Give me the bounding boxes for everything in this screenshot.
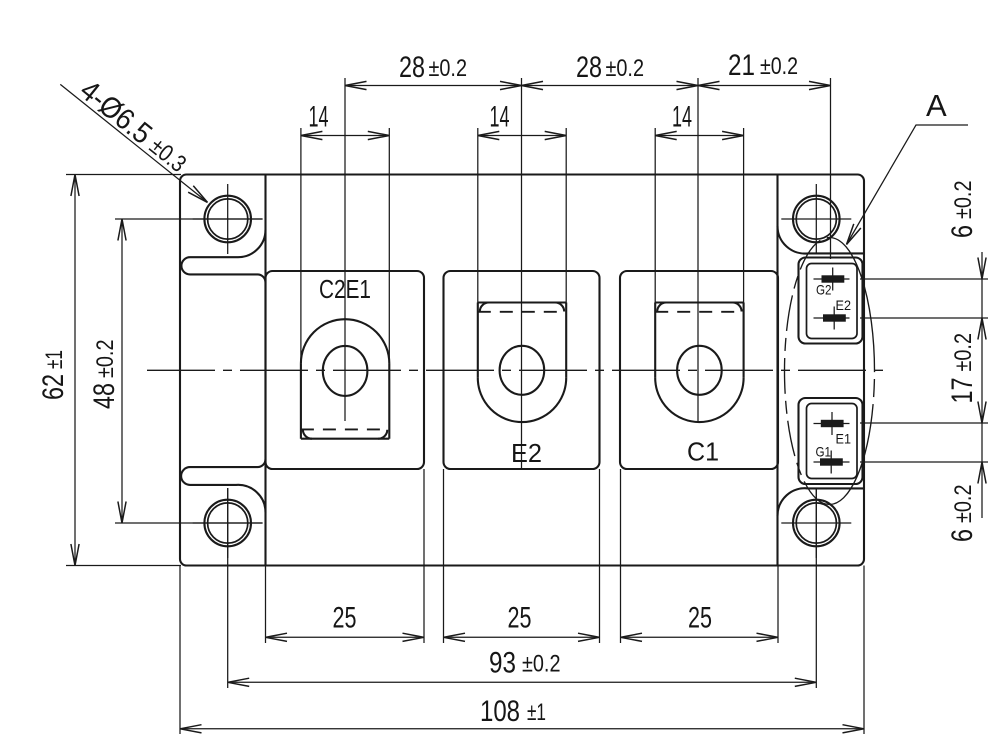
gate connector block bottom (E1/G1) outer bbox=[799, 398, 863, 484]
bottom-left slot bbox=[181, 459, 265, 485]
gate pin G1 bbox=[820, 458, 843, 465]
dim text 48+-0.2 (rotated) bbox=[88, 340, 121, 410]
extension lines 93-dim bbox=[228, 488, 817, 688]
leader 4-dia6.5 hole callout bbox=[60, 84, 207, 202]
gate pin G2 bbox=[822, 275, 845, 282]
C1 washer hidden edge (dashed) bbox=[655, 311, 743, 313]
hole bottom-left crosshair bbox=[193, 488, 263, 558]
right internal edge line bbox=[776, 175, 778, 566]
svg-text:±0.2: ±0.2 bbox=[522, 651, 561, 678]
pin E1 centerline cross bbox=[814, 412, 850, 435]
C2E1 terminal hole bbox=[323, 346, 368, 396]
extension lines 48-dim bbox=[115, 219, 262, 523]
dim line 48 bbox=[121, 219, 123, 523]
extension lines 25-dims bbox=[266, 469, 779, 643]
hole top-left crosshair bbox=[193, 184, 263, 254]
C2E1 washer hooks bbox=[303, 430, 312, 439]
extension line E2 center bbox=[521, 78, 523, 469]
svg-text:28: 28 bbox=[399, 51, 425, 84]
svg-text:G2: G2 bbox=[816, 282, 832, 298]
left internal edge line bbox=[264, 175, 266, 566]
C1 terminal hole bbox=[677, 346, 722, 395]
svg-text:48: 48 bbox=[88, 383, 121, 409]
svg-text:25: 25 bbox=[508, 602, 532, 635]
dim line 62 bbox=[74, 175, 76, 566]
gate connector block bottom inner bbox=[807, 404, 858, 479]
extension line C2E1 center bbox=[344, 78, 346, 421]
svg-text:25: 25 bbox=[688, 602, 712, 635]
mounting hole top-left bbox=[204, 196, 251, 243]
dim line 93 bbox=[228, 681, 817, 683]
terminal C1 washer (arc down) bbox=[655, 301, 743, 303]
extension lines 108-dim bbox=[180, 566, 864, 735]
svg-text:G1: G1 bbox=[816, 444, 832, 460]
callout text 4-dia6.5+-0.3 (rotated) bbox=[74, 74, 194, 180]
mounting hole bottom-right bbox=[793, 500, 840, 547]
dim text 17+-0.2 (rotated) bbox=[946, 333, 979, 404]
terminal C2E1 washer (arc up) bbox=[301, 319, 389, 363]
detail A boundary ellipse right arc bbox=[830, 238, 875, 505]
C1 washer hooks bbox=[657, 303, 666, 312]
svg-text:E2: E2 bbox=[511, 438, 542, 468]
svg-text:±0.3: ±0.3 bbox=[144, 133, 191, 178]
svg-text:14: 14 bbox=[309, 101, 329, 134]
bottom-right boss top edge with fillet bbox=[777, 488, 863, 516]
mounting hole bottom-left bbox=[204, 500, 251, 547]
extension lines 14-dim C2E1 bbox=[301, 128, 389, 363]
svg-text:14: 14 bbox=[490, 101, 510, 134]
gate connector block top (G2/E2) outer bbox=[799, 258, 863, 344]
dim line 28/28/21 bbox=[345, 85, 831, 87]
svg-text:C2E1: C2E1 bbox=[319, 274, 371, 304]
extension lines 14-dim E2 bbox=[478, 128, 566, 303]
gate pin E1 bbox=[821, 420, 844, 427]
svg-text:±0.2: ±0.2 bbox=[950, 181, 977, 220]
svg-text:17: 17 bbox=[946, 378, 979, 404]
pin G2 centerline cross bbox=[814, 268, 850, 291]
dim lines 14 bbox=[301, 135, 744, 137]
svg-text:62: 62 bbox=[37, 374, 70, 400]
top-left boss bottom edge with fillet bbox=[190, 230, 266, 258]
extension line C1 center bbox=[697, 78, 699, 422]
pin E2 centerline cross bbox=[814, 307, 850, 330]
terminal E2 washer (arc down) bbox=[478, 301, 566, 303]
E2 terminal hole bbox=[500, 346, 545, 395]
dim line 6/17/6 right bbox=[981, 252, 983, 518]
leader A detail callout bbox=[847, 125, 969, 245]
svg-text:E1: E1 bbox=[836, 430, 852, 446]
dim text 6+-0.2 bottom right (rotated) bbox=[946, 485, 979, 543]
svg-text:4-Ø6.5: 4-Ø6.5 bbox=[74, 74, 159, 151]
svg-text:108: 108 bbox=[480, 695, 520, 728]
svg-text:93: 93 bbox=[489, 647, 516, 680]
hole top-right crosshair bbox=[781, 184, 851, 254]
svg-text:25: 25 bbox=[333, 602, 357, 635]
E2 washer hidden edge (dashed) bbox=[478, 311, 566, 313]
terminal section box C1 bbox=[620, 271, 778, 469]
svg-text:6: 6 bbox=[946, 225, 979, 238]
svg-text:21: 21 bbox=[728, 49, 755, 82]
dim line 108 bbox=[180, 728, 864, 730]
C2E1 washer hidden edge (dashed) bbox=[301, 428, 389, 430]
dim lines 25 bbox=[266, 636, 779, 638]
mounting hole top-right bbox=[793, 196, 840, 243]
svg-text:±1: ±1 bbox=[527, 699, 546, 726]
extension line gate connector center bbox=[830, 78, 832, 259]
horizontal centerline bbox=[147, 369, 886, 371]
svg-text:28: 28 bbox=[576, 51, 602, 84]
gate pin E2 bbox=[823, 314, 846, 321]
extension lines gate pins right bbox=[860, 279, 988, 462]
svg-text:C1: C1 bbox=[687, 437, 719, 467]
svg-text:±0.2: ±0.2 bbox=[760, 53, 798, 80]
module outer outline bbox=[180, 175, 864, 566]
svg-text:6: 6 bbox=[946, 529, 979, 542]
extension lines 62-dim bbox=[66, 175, 181, 566]
top-right boss bottom edge with fillet bbox=[777, 226, 863, 254]
svg-text:±0.2: ±0.2 bbox=[606, 55, 645, 82]
svg-text:E2: E2 bbox=[836, 297, 852, 313]
svg-text:±0.2: ±0.2 bbox=[950, 485, 977, 524]
dim text 62+-1 (rotated) bbox=[37, 350, 70, 400]
hole bottom-right crosshair bbox=[781, 488, 851, 558]
pin G1 centerline cross bbox=[814, 451, 850, 474]
svg-text:±1: ±1 bbox=[41, 350, 68, 369]
svg-text:±0.2: ±0.2 bbox=[92, 340, 119, 379]
svg-text:±0.2: ±0.2 bbox=[429, 55, 468, 82]
svg-text:±0.2: ±0.2 bbox=[950, 333, 977, 372]
bottom-left boss top edge with fillet bbox=[190, 485, 266, 513]
extension lines 14-dim C1 bbox=[655, 128, 743, 303]
svg-text:A: A bbox=[926, 88, 947, 123]
svg-text:14: 14 bbox=[672, 101, 692, 134]
top-left slot bbox=[181, 257, 265, 282]
terminal section box E2 bbox=[444, 271, 600, 469]
gate connector block top inner bbox=[807, 264, 858, 339]
E2 washer hooks bbox=[480, 303, 489, 312]
detail A boundary ellipse left arc bbox=[785, 238, 830, 505]
terminal section box C2E1 bbox=[266, 271, 425, 469]
dim text 6+-0.2 top right (rotated) bbox=[946, 181, 979, 239]
